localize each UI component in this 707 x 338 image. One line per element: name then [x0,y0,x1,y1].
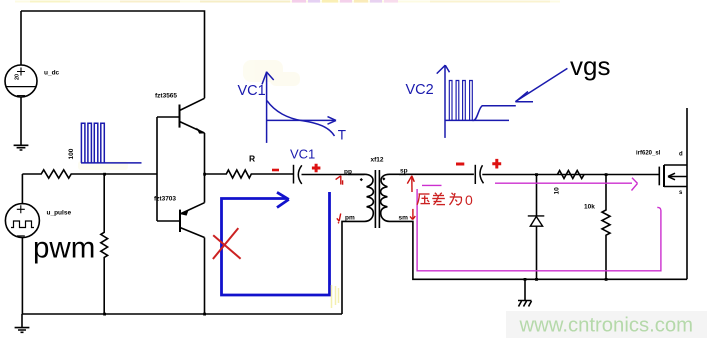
svg-text:s: s [679,190,683,196]
svg-text:VC1: VC1 [290,147,315,162]
svg-text:R: R [249,154,255,164]
svg-text:fzt3703: fzt3703 [154,196,176,203]
svg-text:0: 0 [465,192,473,208]
svg-text:VC1: VC1 [238,83,266,99]
svg-text:20: 20 [15,74,21,80]
svg-text:sp: sp [400,168,408,175]
svg-text:pm: pm [345,215,355,222]
svg-text:T: T [338,128,346,143]
svg-text:sm: sm [399,215,409,222]
svg-text:d: d [679,152,683,158]
svg-text:10: 10 [554,187,561,195]
svg-text:pp: pp [344,169,352,176]
svg-text:xf12: xf12 [371,157,384,164]
svg-text:fzt3565: fzt3565 [155,93,177,100]
svg-text:www.cntronics.com: www.cntronics.com [519,315,694,337]
svg-text:vgs: vgs [570,51,610,81]
svg-text:100: 100 [68,148,75,159]
svg-text:pwm: pwm [33,232,95,265]
svg-text:VC2: VC2 [406,82,434,98]
svg-text:10k: 10k [584,204,595,211]
svg-text:u_dc: u_dc [44,70,60,77]
svg-text:irf620_sl: irf620_sl [636,151,661,157]
svg-text:u_pulse: u_pulse [47,210,72,217]
